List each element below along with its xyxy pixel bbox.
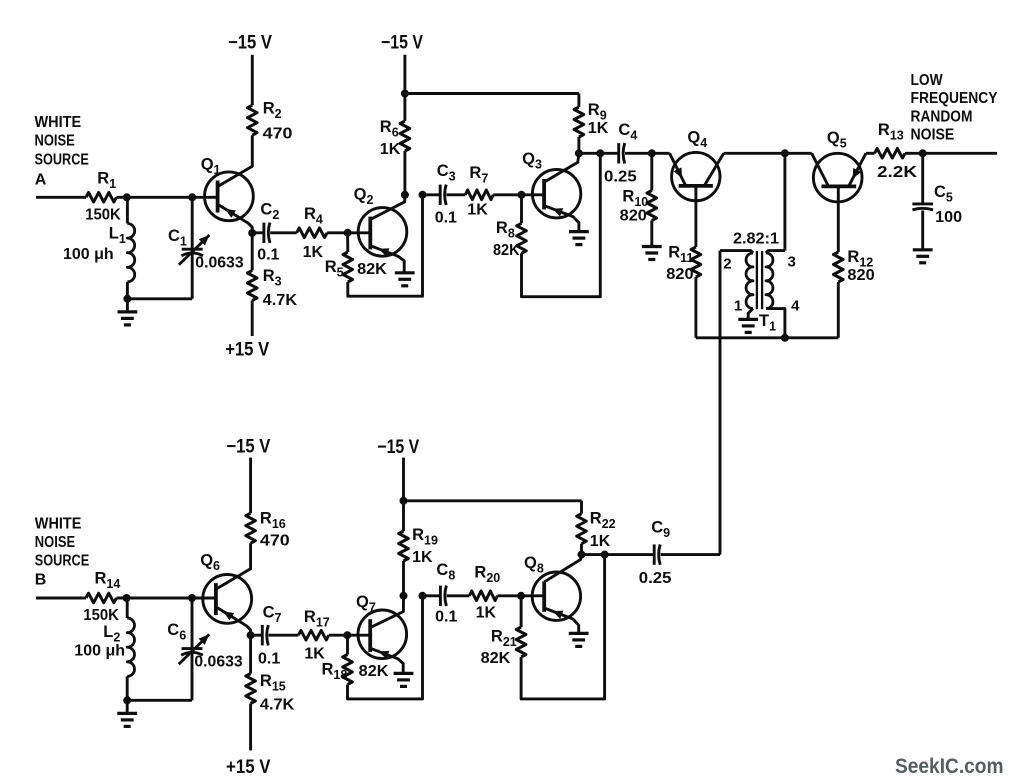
svg-text:820: 820	[620, 207, 647, 224]
svg-text:2: 2	[723, 256, 731, 273]
svg-text:4.7K: 4.7K	[263, 292, 298, 309]
svg-text:820: 820	[847, 267, 874, 284]
svg-text:0.1: 0.1	[257, 246, 279, 263]
svg-text:FREQUENCY: FREQUENCY	[911, 90, 999, 107]
svg-text:150K: 150K	[85, 207, 121, 224]
svg-text:+15 V: +15 V	[226, 757, 271, 778]
svg-text:0.25: 0.25	[639, 570, 672, 587]
svg-text:82K: 82K	[357, 261, 387, 278]
svg-text:RANDOM: RANDOM	[911, 108, 973, 125]
svg-text:SeekIC.com: SeekIC.com	[895, 755, 1004, 778]
svg-text:1K: 1K	[588, 120, 609, 137]
svg-text:0.1: 0.1	[435, 209, 457, 226]
svg-text:−15 V: −15 V	[377, 437, 419, 458]
svg-text:1K: 1K	[380, 141, 401, 158]
svg-text:150K: 150K	[83, 607, 119, 624]
svg-text:WHITE: WHITE	[35, 516, 82, 533]
svg-text:1K: 1K	[467, 201, 488, 218]
svg-text:1: 1	[734, 298, 742, 315]
svg-text:1K: 1K	[303, 244, 324, 261]
svg-text:100: 100	[935, 209, 962, 226]
svg-text:B: B	[35, 571, 47, 588]
svg-text:1K: 1K	[476, 604, 497, 621]
svg-text:WHITE: WHITE	[35, 114, 82, 131]
svg-text:470: 470	[263, 126, 293, 143]
svg-text:82K: 82K	[493, 242, 520, 259]
svg-text:2.2K: 2.2K	[877, 164, 918, 181]
svg-text:4: 4	[791, 298, 800, 315]
svg-text:SOURCE: SOURCE	[35, 151, 90, 168]
svg-text:0.1: 0.1	[435, 608, 457, 625]
svg-text:−15 V: −15 V	[228, 32, 272, 53]
svg-text:+15 V: +15 V	[225, 340, 269, 361]
svg-text:0.25: 0.25	[604, 168, 637, 185]
svg-text:82K: 82K	[481, 650, 511, 667]
svg-text:−15 V: −15 V	[381, 32, 423, 53]
svg-text:NOISE: NOISE	[35, 534, 76, 551]
svg-text:0.0633: 0.0633	[194, 654, 242, 671]
svg-text:82K: 82K	[359, 663, 389, 680]
svg-text:NOISE: NOISE	[35, 132, 76, 149]
svg-text:2.82:1: 2.82:1	[733, 230, 779, 247]
svg-text:0.0633: 0.0633	[195, 255, 243, 272]
svg-text:100 μh: 100 μh	[74, 643, 125, 660]
svg-text:3: 3	[788, 254, 796, 271]
svg-text:100 μh: 100 μh	[63, 246, 114, 263]
svg-text:470: 470	[260, 533, 290, 550]
svg-text:1K: 1K	[590, 533, 611, 550]
svg-text:0.1: 0.1	[258, 650, 280, 667]
svg-text:1K: 1K	[412, 549, 433, 566]
svg-text:A: A	[35, 171, 47, 188]
svg-text:−15 V: −15 V	[226, 436, 270, 457]
svg-text:LOW: LOW	[911, 72, 944, 89]
svg-text:4.7K: 4.7K	[260, 697, 295, 714]
svg-text:NOISE: NOISE	[911, 127, 955, 144]
svg-text:SOURCE: SOURCE	[35, 553, 90, 570]
svg-text:820: 820	[666, 266, 693, 283]
